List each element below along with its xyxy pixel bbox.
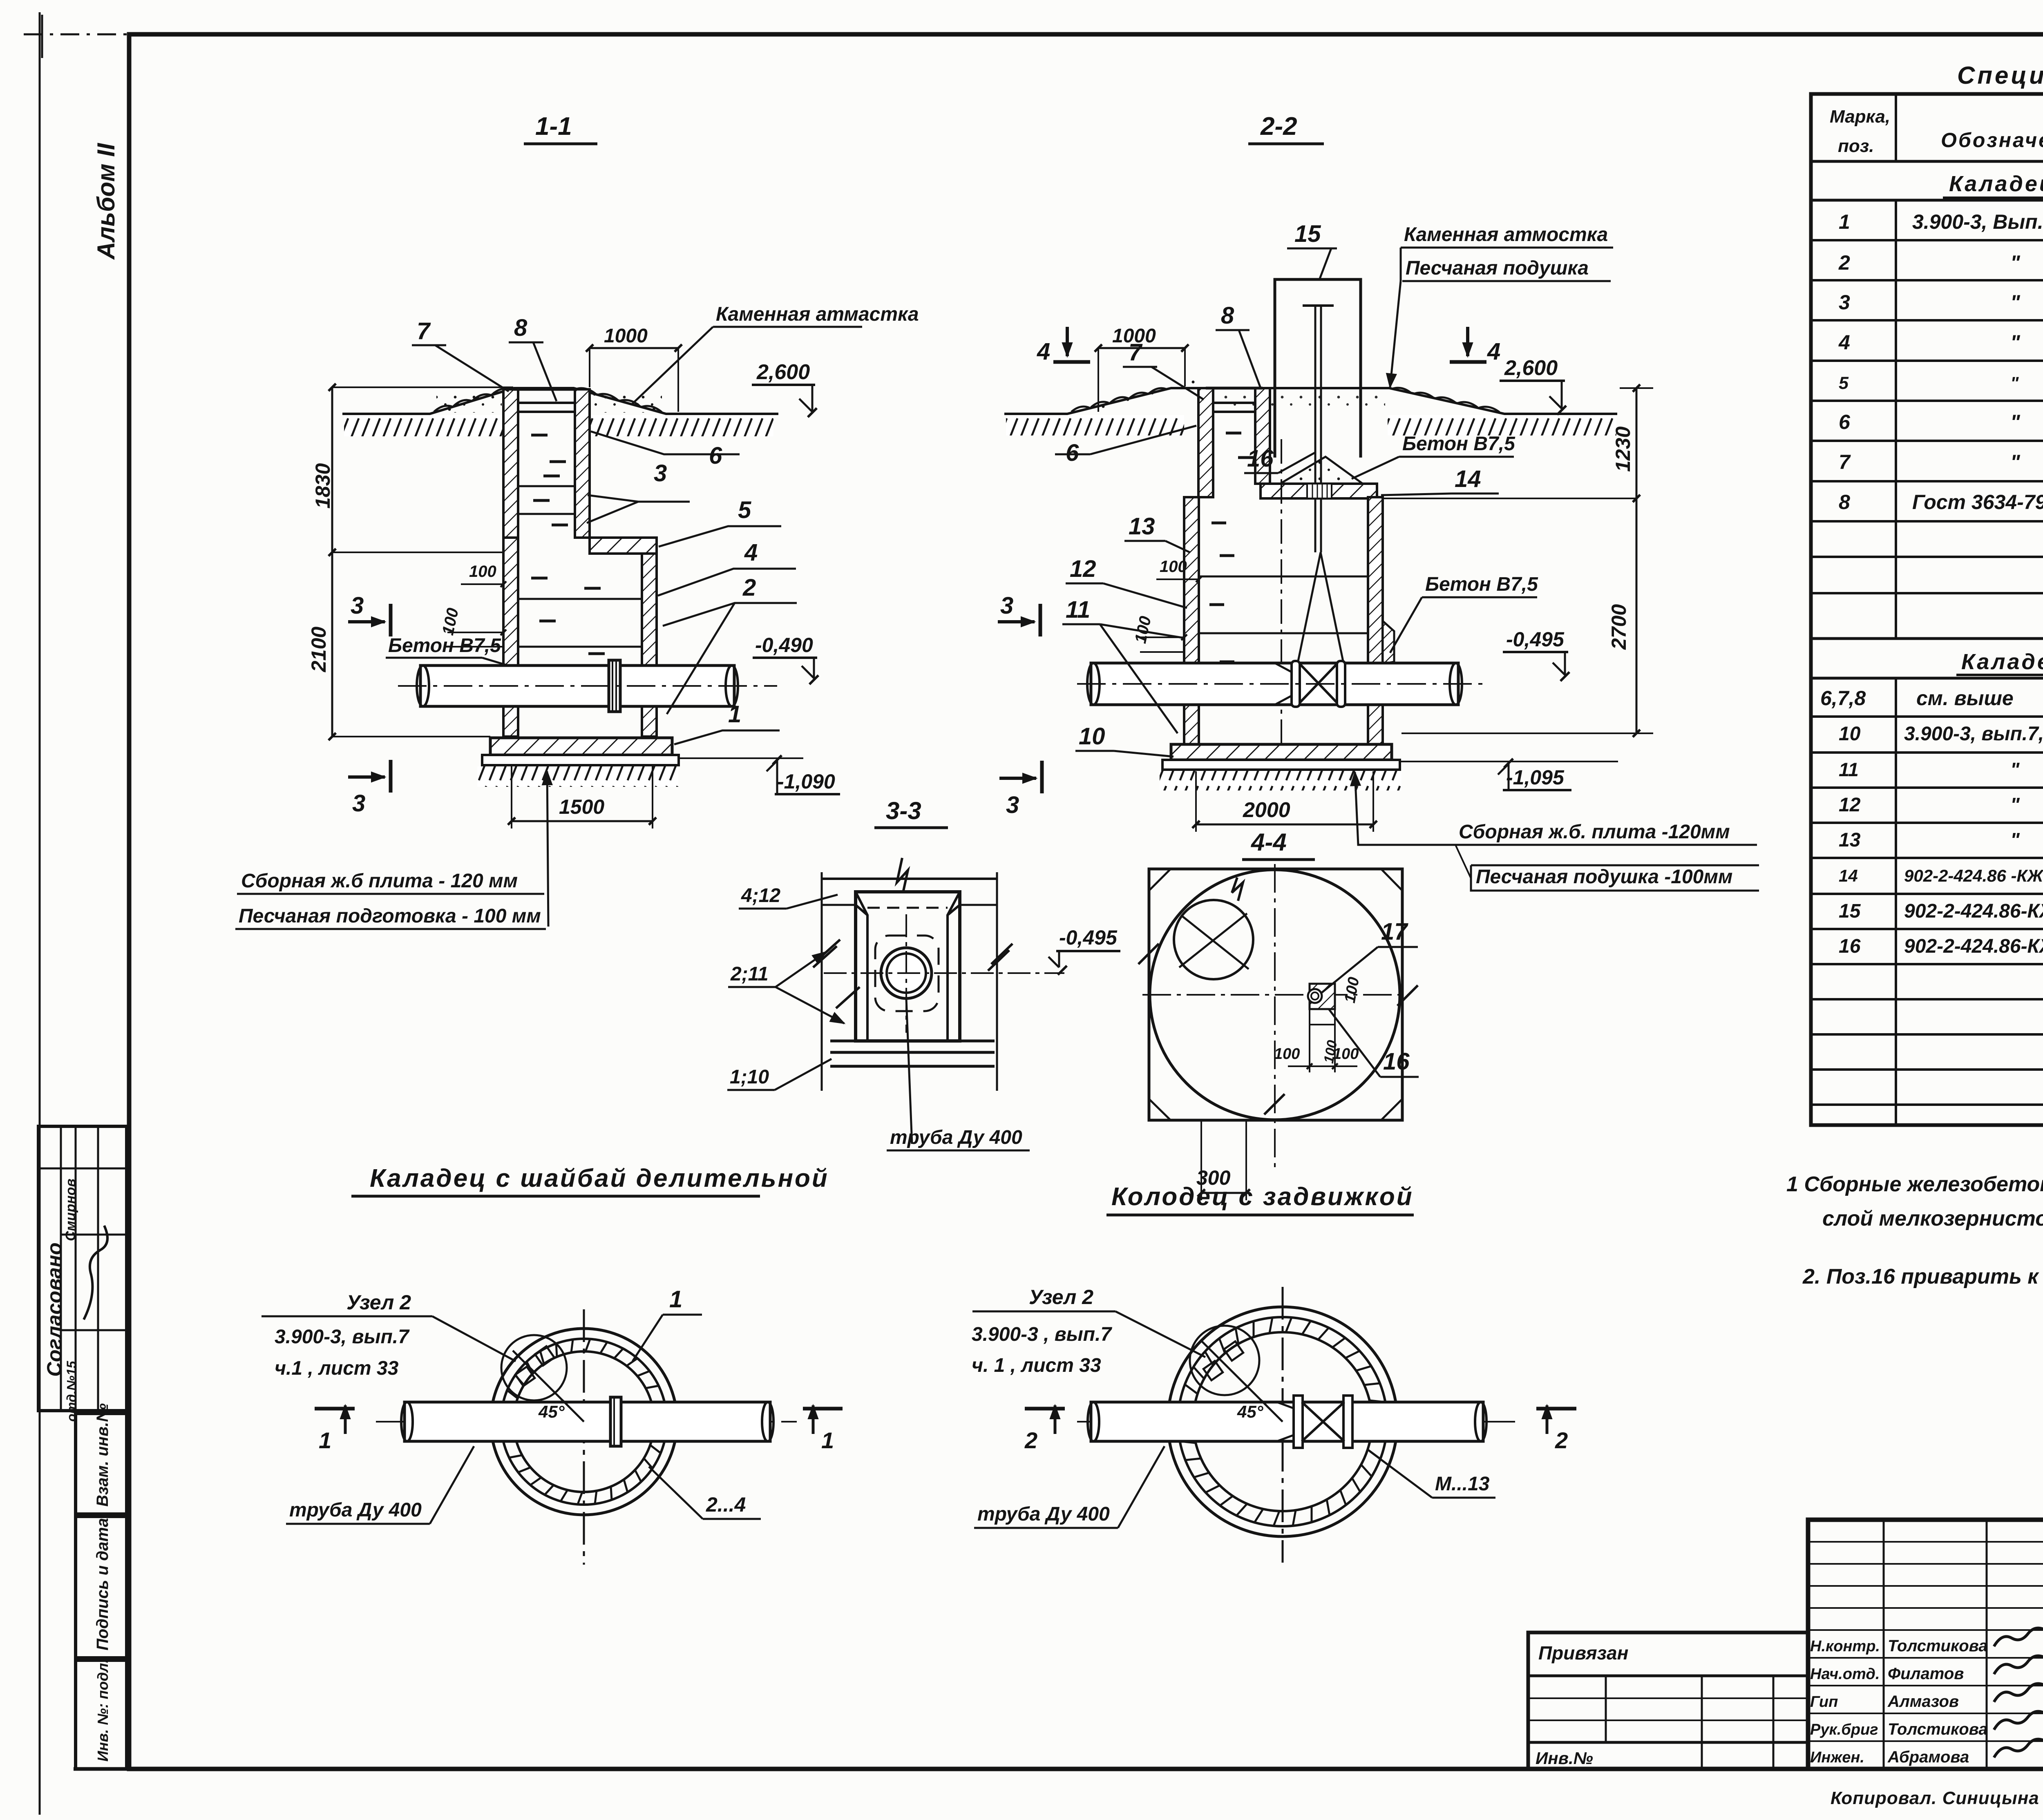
centrelines (plan right) [1282, 1287, 1284, 1563]
svg-text:1 Сборные железобетонные изд: 1 Сборные железобетонные изделия укладыв… [1786, 1172, 2043, 1196]
svg-text:Каладец с задвижкай: Каладец с задвижкай [1961, 650, 2043, 674]
manhole circle with cross (4-4) [1174, 900, 1253, 979]
dashed top line inside casing [867, 907, 948, 909]
svg-text:16: 16 [1839, 936, 1861, 957]
svg-text:100: 100 [1160, 558, 1187, 576]
svg-text:1-1: 1-1 [535, 112, 572, 141]
dim 1000 (top) [590, 347, 678, 349]
svg-text:Толстикова: Толстикова [1888, 1637, 1988, 1655]
svg-text:8: 8 [514, 315, 528, 341]
svg-text:2: 2 [1838, 251, 1850, 274]
svg-text:1: 1 [319, 1427, 331, 1453]
svg-text:ч. 1 , лист 33: ч. 1 , лист 33 [972, 1355, 1101, 1376]
node 2 detail circle (plan left) [501, 1335, 567, 1400]
interior centreline (2-2) [1281, 439, 1282, 776]
pipe through plan (left) [405, 1402, 770, 1441]
svg-text:Узел 2: Узел 2 [1029, 1286, 1093, 1309]
svg-text:4-4: 4-4 [1251, 828, 1287, 856]
svg-text:6,7,8: 6,7,8 [1820, 687, 1866, 710]
svg-text:2: 2 [742, 574, 756, 601]
mound sand fill dots above slab [1222, 391, 1385, 412]
subsoil hatch under base [477, 766, 678, 787]
svg-text:3: 3 [1000, 592, 1013, 619]
section mark 4 (right) [1466, 327, 1469, 356]
washer flange (plan left) [610, 1397, 621, 1446]
dim 1500 (bottom) [512, 820, 653, 822]
svg-text:Инв. №: подл.: Инв. №: подл. [94, 1659, 111, 1762]
45 deg diagonal (plan left) [513, 1351, 584, 1422]
big circle (well ring, 4-4) [1150, 870, 1400, 1120]
svg-text:2700: 2700 [1607, 604, 1630, 650]
svg-text:4;12: 4;12 [741, 885, 780, 907]
svg-text:4: 4 [744, 539, 758, 566]
svg-text:2;11: 2;11 [730, 963, 769, 985]
svg-text:2: 2 [1555, 1427, 1568, 1453]
svg-text:Гост 3634-79: Гост 3634-79 [1912, 491, 2043, 514]
svg-text:Взам. инв.№: Взам. инв.№ [94, 1403, 112, 1507]
svg-text:Песчаная подушка -100мм: Песчаная подушка -100мм [1476, 866, 1732, 888]
pipe circle (3-3) [881, 948, 932, 998]
mound fill dots [436, 393, 502, 413]
chamber walls (2-2, pos 11-13) [1184, 497, 1199, 744]
casing box (3-3) [856, 892, 960, 1041]
svg-text:Бетон В7,5: Бетон В7,5 [388, 635, 501, 657]
svg-text:17: 17 [1381, 918, 1408, 945]
slab level line to dimension [1377, 498, 1636, 499]
bottom slab KTsD20 (pos 10) [1171, 744, 1392, 760]
sheet left edge line [39, 12, 41, 1815]
leader to buried plate notes [547, 771, 548, 927]
svg-text:Инв.№: Инв.№ [1536, 1749, 1593, 1768]
svg-text:2. Поз.16 приварить к закл: 2. Поз.16 приварить к закладной детали п… [1802, 1265, 2043, 1289]
small dim 100 (rotated) [439, 606, 462, 636]
svg-text:5: 5 [738, 497, 751, 523]
svg-text:1;10: 1;10 [730, 1066, 769, 1088]
well rings (plan left) [491, 1329, 677, 1515]
svg-text:3: 3 [1006, 792, 1019, 818]
svg-text:": " [2010, 331, 2021, 354]
ground line and mound (2-2) [1004, 388, 1617, 414]
gate valve (2-2) [1298, 552, 1343, 663]
svg-text:3: 3 [654, 460, 667, 487]
svg-text:Нач.отд.: Нач.отд. [1810, 1666, 1880, 1683]
svg-text:": " [2010, 373, 2019, 393]
margin box Подпись и дата [76, 1516, 127, 1658]
svg-text:2000: 2000 [1243, 798, 1290, 822]
dashed square around pipe [875, 936, 939, 1011]
margin box Взам. инв.№ [76, 1414, 127, 1514]
svg-text:Песчаная подготовка - 100 мм: Песчаная подготовка - 100 мм [239, 905, 541, 927]
svg-text:Спецификация элементов: Спецификация элементов [1957, 62, 2043, 89]
svg-text:2...4: 2...4 [706, 1493, 746, 1516]
svg-text:М...13: М...13 [1435, 1473, 1490, 1495]
svg-text:Копировал. Синицына: Копировал. Синицына [1831, 1788, 2039, 1808]
svg-text:-1,090: -1,090 [777, 770, 835, 793]
gate valve (plan right) [1277, 1402, 1294, 1441]
svg-text:3-3: 3-3 [886, 797, 921, 824]
svg-text:1: 1 [821, 1427, 834, 1453]
edge break marks (4-4) [1138, 944, 1418, 1114]
dims 100 around embedded item [1341, 976, 1363, 1005]
right dims 1230 and 2700 [1636, 388, 1638, 733]
svg-text:1500: 1500 [559, 795, 604, 818]
pipe centreline (2-2) [1077, 683, 1483, 685]
svg-text:": " [2010, 251, 2021, 274]
well rings (plan right) [1168, 1307, 1397, 1536]
concrete cone fill (pos 16 zone) [1280, 457, 1363, 484]
svg-text:Согласовано: Согласовано [43, 1242, 66, 1377]
svg-text:902-2-424.86-КЖИ-1.108: 902-2-424.86-КЖИ-1.108 [1904, 936, 2043, 957]
svg-text:Толстикова: Толстикова [1888, 1720, 1988, 1738]
svg-text:труба Ду 400: труба Ду 400 [289, 1499, 422, 1521]
svg-text:ч.1 , лист 33: ч.1 , лист 33 [275, 1358, 399, 1379]
signature squiggle [84, 1226, 107, 1320]
svg-text:12: 12 [1070, 556, 1096, 582]
section 1-1 ground line and mound [342, 388, 778, 414]
svg-text:Смирнов: Смирнов [63, 1179, 78, 1241]
dim 1830 (vertical) [331, 387, 333, 737]
svg-text:10: 10 [1839, 723, 1861, 745]
svg-text:7: 7 [1839, 451, 1851, 473]
svg-text:1830: 1830 [311, 463, 334, 509]
svg-text:902-2-424.86 -КЖИ-1.134: 902-2-424.86 -КЖИ-1.134 [1904, 866, 2043, 885]
svg-text:": " [2010, 759, 2020, 780]
svg-text:6: 6 [709, 442, 722, 469]
level mark -1.090 [679, 757, 803, 759]
svg-text:Н.контр.: Н.контр. [1810, 1638, 1880, 1655]
section marks 1-1 (plan left) [315, 1407, 355, 1411]
svg-text:": " [2010, 451, 2021, 473]
svg-text:12: 12 [1839, 794, 1861, 816]
svg-text:-0,495: -0,495 [1059, 926, 1118, 949]
dim 2000 [1196, 824, 1373, 826]
svg-text:3: 3 [1839, 291, 1850, 314]
svg-text:Каменная атмостка: Каменная атмостка [1404, 224, 1608, 246]
square slab outline (4-4) [1149, 869, 1402, 1120]
svg-text:Каменная атмастка: Каменная атмастка [716, 304, 919, 325]
svg-text:4: 4 [1037, 338, 1050, 365]
svg-text:2100: 2100 [307, 627, 330, 672]
svg-text:2,600: 2,600 [1504, 356, 1558, 380]
svg-text:3.900-3, Вып.7, ч 1 и 2: 3.900-3, Вып.7, ч 1 и 2 [1912, 210, 2043, 233]
svg-text:2-2: 2-2 [1260, 112, 1297, 141]
svg-text:4: 4 [1487, 338, 1500, 365]
steel casing KS1 (pos 15) [1275, 279, 1361, 458]
svg-text:14: 14 [1455, 466, 1481, 492]
svg-text:Марка,: Марка, [1830, 107, 1890, 127]
svg-text:Бетон В7,5: Бетон В7,5 [1402, 433, 1515, 455]
centrelines (3-3) [905, 914, 907, 1033]
svg-text:100: 100 [469, 563, 496, 581]
svg-text:Гип: Гип [1810, 1693, 1838, 1711]
svg-text:": " [2010, 829, 2020, 851]
cast iron cover (pos 8) [512, 388, 574, 391]
valve stem rod [1314, 306, 1317, 552]
pipe Du400 (2-2) [1091, 663, 1458, 705]
signature squiggles [1994, 1628, 2043, 1646]
ground hatch right of shaft [590, 415, 773, 436]
svg-text:8: 8 [1221, 302, 1234, 329]
svg-text:7: 7 [417, 318, 431, 344]
slab ring (pos 5) [590, 538, 657, 554]
well neck walls (pos 6,7) [503, 389, 518, 538]
pipe centreline [398, 685, 777, 687]
svg-text:3.900-3, вып.7, ч.1 и 2: 3.900-3, вып.7, ч.1 и 2 [1904, 723, 2043, 745]
wall break marks (3-3) [813, 940, 860, 1008]
label Album II (rotated) [92, 143, 120, 260]
coordination block Soglasovano [38, 1126, 127, 1411]
svg-text:": " [2010, 291, 2021, 314]
pipe Du400 through section 1-1 [420, 665, 734, 706]
svg-text:10: 10 [1079, 723, 1105, 750]
svg-text:Сборная ж.б. плита -120мм: Сборная ж.б. плита -120мм [1459, 821, 1730, 843]
svg-text:45°: 45° [1237, 1402, 1264, 1421]
svg-text:14: 14 [1839, 866, 1858, 885]
svg-text:Альбом II: Альбом II [92, 143, 120, 260]
section break zigzag top [897, 858, 908, 893]
svg-text:Бетон В7,5: Бетон В7,5 [1425, 574, 1538, 595]
svg-text:1230: 1230 [1612, 427, 1634, 472]
svg-text:13: 13 [1839, 829, 1861, 851]
svg-text:Алмазов: Алмазов [1887, 1693, 1959, 1711]
specification table grid [1811, 94, 2043, 1125]
node 2 detail circle (plan right) [1190, 1326, 1259, 1395]
svg-text:Узел 2: Узел 2 [346, 1291, 411, 1314]
svg-text:-0,495: -0,495 [1506, 628, 1565, 651]
dim 1000 (2-2) [1098, 347, 1185, 349]
cover slab KTsP1-20-1a (pos 14) [1261, 484, 1377, 498]
svg-text:1: 1 [728, 701, 741, 728]
svg-text:-0,490: -0,490 [755, 634, 813, 657]
svg-text:11: 11 [1839, 759, 1859, 780]
svg-text:": " [2010, 794, 2020, 816]
svg-text:16: 16 [1383, 1048, 1410, 1075]
svg-text:1000: 1000 [604, 325, 648, 347]
dividing washer coupling (pos 2) [609, 660, 620, 712]
svg-text:Каладец с шайбай делительно: Каладец с шайбай делительной [1949, 172, 2043, 196]
svg-text:Филатов: Филатов [1888, 1665, 1964, 1683]
svg-text:7: 7 [1129, 339, 1143, 366]
svg-text:2,600: 2,600 [756, 360, 810, 384]
svg-text:Рук.бриг: Рук.бриг [1810, 1721, 1878, 1738]
svg-text:2: 2 [1024, 1427, 1037, 1453]
svg-text:Сборная ж.б плита - 120 мм: Сборная ж.б плита - 120 мм [241, 870, 518, 892]
chamber left wall [503, 538, 518, 737]
svg-text:слой мелкозернистого бетона: слой мелкозернистого бетона класса В3,5 [1822, 1207, 2043, 1230]
pipe through plan (right) [1091, 1402, 1483, 1441]
svg-text:6: 6 [1839, 411, 1851, 433]
bottom slab (pos 1) [490, 738, 672, 755]
svg-text:-1,095: -1,095 [1506, 766, 1565, 789]
svg-text:100: 100 [1274, 1045, 1300, 1063]
section marks 2-2 (plan right) [1025, 1407, 1065, 1411]
svg-text:труба Ду 400: труба Ду 400 [977, 1503, 1110, 1525]
leader and notes precast slab / sand cushion (2-2) [1355, 772, 1455, 845]
centrelines (plan left) [583, 1309, 585, 1565]
svg-text:100: 100 [1333, 1045, 1359, 1063]
svg-text:15: 15 [1839, 900, 1861, 922]
outer slab edges (3-3) [821, 872, 823, 1091]
svg-text:1: 1 [1839, 210, 1850, 233]
svg-text:Привязан: Привязан [1538, 1642, 1628, 1664]
svg-text:Обозначение: Обозначение [1941, 129, 2043, 152]
bolt pos17 [1308, 989, 1322, 1003]
svg-text:8: 8 [1839, 491, 1850, 514]
svg-text:Абрамова: Абрамова [1887, 1748, 1969, 1766]
svg-text:Песчаная подушка: Песчаная подушка [1406, 257, 1589, 279]
svg-text:3.900-3 , вып.7: 3.900-3 , вып.7 [972, 1324, 1112, 1345]
svg-text:11: 11 [1066, 596, 1090, 623]
section mark 3 (lower) [348, 775, 385, 779]
svg-text:": " [2010, 411, 2021, 433]
title block stamp [1808, 1520, 2043, 1769]
svg-text:5: 5 [1839, 373, 1849, 393]
svg-text:6: 6 [1066, 440, 1079, 466]
base band (3-3) [830, 1040, 995, 1043]
dim 300 (4-4) [1201, 1192, 1246, 1194]
ground hatch left of shaft [344, 415, 503, 436]
ground hatch right (2-2) [1388, 415, 1616, 435]
svg-text:3: 3 [351, 592, 364, 619]
svg-text:16: 16 [1247, 445, 1274, 472]
svg-text:Каладец с шайбай делительной: Каладец с шайбай делительной [370, 1164, 829, 1192]
svg-text:15: 15 [1294, 221, 1321, 247]
svg-text:см. выше: см. выше [1916, 687, 2014, 710]
svg-text:Инжен.: Инжен. [1810, 1749, 1864, 1766]
svg-text:4: 4 [1838, 331, 1850, 354]
svg-text:поз.: поз. [1838, 136, 1874, 156]
svg-text:Колодец с задвижкой: Колодец с задвижкой [1111, 1183, 1414, 1211]
centrelines (4-4) [1274, 864, 1276, 1170]
dim 2100 (vertical) [307, 627, 330, 672]
margin box Инв. №: подл. [76, 1660, 127, 1769]
section mark 3 (2-2 lower) [999, 777, 1036, 780]
privyazan block [1528, 1632, 1808, 1769]
chamber right wall (pos 4) [642, 554, 657, 737]
svg-text:3.900-3, вып.7: 3.900-3, вып.7 [275, 1326, 410, 1348]
svg-text:45°: 45° [538, 1402, 565, 1421]
top-left trim dash-dot mark [24, 33, 130, 36]
svg-text:труба Ду 400: труба Ду 400 [890, 1127, 1022, 1148]
svg-text:902-2-424.86-КЖИ-1.135: 902-2-424.86-КЖИ-1.135 [1904, 900, 2043, 922]
svg-text:Подпись и дата: Подпись и дата [94, 1518, 112, 1650]
interior joint dashes [531, 434, 548, 437]
embedded item pos16 (small square) [1310, 984, 1335, 1009]
svg-text:1: 1 [669, 1286, 682, 1313]
svg-text:13: 13 [1129, 513, 1155, 540]
svg-text:3: 3 [352, 790, 365, 817]
neck walls (2-2) [1198, 388, 1213, 497]
concrete collar at right wall [1383, 621, 1394, 664]
neck ring joints [518, 485, 575, 487]
ground hatch left (2-2) [1006, 415, 1184, 435]
corner chamfer marks [1149, 869, 1402, 1120]
precast base plate [482, 755, 679, 765]
chamber ring joints (2-2) [1199, 576, 1368, 578]
chamber ring joints [518, 598, 642, 600]
